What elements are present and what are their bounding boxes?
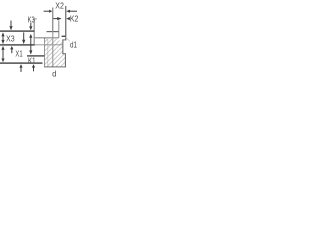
- reference line C: [27, 55, 45, 56]
- dimension K2 right-pointing arrow at y18.6: [53, 17, 61, 20]
- arrow a8: up arrow under line B at x11.8: [10, 46, 13, 53]
- dimension X2 left arrow (points right at x52.3): [44, 10, 53, 13]
- hatched socket wall left part: [45, 39, 59, 67]
- dimension K1 double arrow at x30.8 (A to C): [29, 34, 32, 55]
- product outline: pipe end face V7: [65, 6, 66, 40]
- reference line B: [0, 44, 34, 45]
- product outline: shoulder line E: [34, 37, 59, 38]
- dimension X2 right arrow (points left at x66.3): [66, 10, 77, 13]
- product outline: bottom edge: [44, 66, 66, 67]
- hatched socket wall right part: [59, 40, 63, 66]
- dimension X3 double arrow at x3: [1, 32, 4, 44]
- svg-text:K1: K1: [28, 56, 36, 66]
- centerline / extension V4: [52, 8, 53, 32]
- arrow a2: K3 down arrow onto line A at x30.8: [29, 23, 32, 31]
- d1 leader: [66, 37, 70, 41]
- product outline: corner step V7 to V6: [62, 39, 66, 40]
- svg-text:X1: X1: [15, 49, 22, 59]
- arrow a12: up arrow under line D at x33.5: [32, 64, 35, 71]
- product outline: socket left wall V2: [44, 38, 45, 68]
- dimension X1 double arrow at x3 (B to D): [1, 46, 4, 62]
- product outline: bell outer wall V8: [65, 54, 66, 68]
- hatched bell lip: [62, 54, 65, 67]
- arrow a1: down arrow onto line A at x11: [9, 21, 12, 31]
- svg-text:X2: X2: [55, 0, 64, 10]
- product outline: left edge vertical V1: [34, 18, 35, 45]
- reference line A: [0, 30, 34, 31]
- product outline: inner wall V3: [46, 38, 49, 67]
- svg-text:d1: d1: [70, 40, 77, 50]
- arrow a5: down arrow onto line B at x23.7: [22, 32, 25, 44]
- product outline: socket outer wall V6: [62, 40, 63, 54]
- product outline: bell step out: [62, 53, 66, 54]
- product outline: upper right horizontal F: [47, 31, 59, 32]
- svg-text:d: d: [52, 70, 56, 79]
- svg-text:K2: K2: [70, 14, 79, 24]
- product outline: spigot wall V5: [58, 21, 59, 38]
- d1 wall tick: [62, 36, 66, 37]
- dimension K2 left-pointing arrow at y18.6: [66, 17, 70, 20]
- product outline: top-left stub: [34, 18, 37, 19]
- arrow a11: up arrow under line D at x21: [19, 64, 22, 72]
- svg-text:X3: X3: [6, 34, 15, 44]
- reference line D: [0, 62, 43, 63]
- product outline: line B continuation under product: [34, 44, 62, 45]
